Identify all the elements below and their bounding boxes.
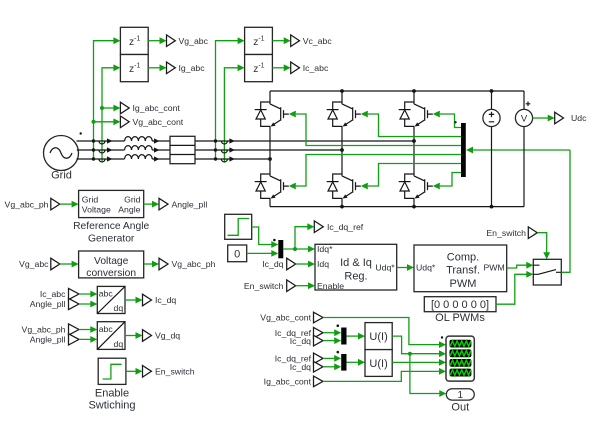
node voltage taps Vg <box>92 139 95 160</box>
block abc-dq 2 <box>97 322 125 350</box>
svg-text:PWM: PWM <box>450 278 477 290</box>
IGBT Q3 upper leg2 <box>327 102 361 127</box>
wire mux to Idq* with branch <box>283 223 315 252</box>
wire En_switch to switch ctrl <box>537 233 550 260</box>
svg-text:Ic_abc: Ic_abc <box>303 63 329 73</box>
node bottom bus leg3 <box>412 205 416 209</box>
svg-text:Voltage: Voltage <box>82 205 111 215</box>
inductor Lb <box>125 146 153 150</box>
voltmeter Udc <box>515 91 532 207</box>
resistor block three-phase <box>170 136 195 163</box>
block abc-dq 1 <box>97 286 125 313</box>
svg-text:Ig_abc_cont: Ig_abc_cont <box>133 103 181 113</box>
svg-text:Udc: Udc <box>571 113 587 123</box>
inductor Lc <box>125 155 153 159</box>
IGBT Q4 lower leg2 <box>327 174 361 199</box>
svg-text:Vg_dq: Vg_dq <box>155 331 180 341</box>
current hoops Ig with arrows <box>99 138 113 162</box>
svg-text:abc: abc <box>99 288 114 298</box>
svg-text:Angle: Angle <box>118 205 140 215</box>
svg-text:Vc_abc: Vc_abc <box>303 36 333 46</box>
wire b1 to UI1 <box>347 333 366 340</box>
goto tag Angle_pll <box>159 198 207 210</box>
from tag En_switch top <box>486 227 537 239</box>
svg-text:1: 1 <box>458 390 464 401</box>
svg-text:Ic_dq: Ic_dq <box>290 362 311 372</box>
from tag Ic_dq b2 <box>290 362 341 373</box>
svg-text:PWM: PWM <box>483 263 504 273</box>
mux bar Idq <box>278 240 283 258</box>
wire Udq* to CTP <box>397 264 414 271</box>
AC source Grid <box>44 132 82 181</box>
svg-text:Reference Angle: Reference Angle <box>73 221 149 232</box>
wire UI2 to scope in3 <box>392 359 446 366</box>
wire Ic vertical tap into z4 <box>224 64 244 161</box>
wire z1 to Vg_abc tag <box>148 37 166 44</box>
mux bar b2 <box>337 351 347 371</box>
wire Ig vertical tap into z2 <box>102 64 120 161</box>
svg-text:Udq*: Udq* <box>416 263 436 273</box>
from tag Ic_dq_ref b1 <box>275 327 341 338</box>
svg-text:Grid: Grid <box>82 194 99 204</box>
svg-text:Udq*: Udq* <box>375 263 395 273</box>
wire PWM to switch in1 <box>507 262 534 269</box>
svg-text:Ig_abc: Ig_abc <box>179 63 206 73</box>
wire z4 to Ic_abc tag <box>272 64 290 71</box>
wire switch output to demux <box>561 150 570 272</box>
wire gate upper leg3 <box>433 111 461 128</box>
goto tag Vc_abc <box>291 35 333 47</box>
wire gate upper leg2 <box>361 111 461 137</box>
svg-text:Vg_abc_ph: Vg_abc_ph <box>172 259 216 269</box>
svg-text:Grid: Grid <box>124 194 141 204</box>
svg-text:0: 0 <box>234 248 240 260</box>
wire PWM into demux <box>466 147 570 154</box>
from tag Angle_pll 2 <box>30 334 79 345</box>
wire Vc vertical tap into z3 <box>216 37 245 159</box>
svg-text:En_switch: En_switch <box>244 281 284 291</box>
node phase A to leg3 <box>412 139 416 143</box>
from tag Ic_dq mid <box>262 258 315 270</box>
svg-text:Ic_dq: Ic_dq <box>262 259 283 269</box>
current hoops Ic with arrows <box>221 138 235 162</box>
unit delay z2 Ig <box>120 55 148 82</box>
from tag Vg_abc <box>19 258 60 270</box>
svg-text:Angle_pll: Angle_pll <box>172 199 208 209</box>
wire OL PWMs to switch in2 <box>496 271 533 304</box>
wire gate upper leg1 <box>289 111 461 146</box>
wire leg1 vertical <box>269 91 271 207</box>
svg-text:Vg_abc_cont: Vg_abc_cont <box>260 313 311 323</box>
node bottom bus DC source <box>490 205 494 209</box>
from tag Ic_dq_ref b2 <box>275 353 341 364</box>
wire leg2 vertical <box>341 91 343 207</box>
svg-text:Enable: Enable <box>95 388 129 400</box>
goto tag Vg_dq <box>143 330 181 342</box>
wire UI1 to scope in2 and Out <box>392 336 446 397</box>
wire DC bus bottom <box>270 206 524 208</box>
node phase B to leg2 <box>340 148 344 152</box>
block Reference Angle Generator <box>73 190 149 244</box>
block Id and Iq Reg <box>315 244 397 291</box>
svg-text:Ic_dq: Ic_dq <box>290 336 311 346</box>
svg-text:Out: Out <box>451 402 469 414</box>
wire abcdq1 to Ic_dq <box>125 297 143 304</box>
wire to Vg_abc_ph tag <box>144 261 159 268</box>
block constant OL PWMs <box>424 297 496 325</box>
wire abcdq2 to Vg_dq <box>125 332 143 339</box>
svg-text:OL PWMs: OL PWMs <box>435 312 485 324</box>
svg-text:Vg_abc_ph: Vg_abc_ph <box>5 199 49 209</box>
from tag Ic_dq b1 <box>290 335 341 346</box>
svg-text:Reg.: Reg. <box>344 271 367 283</box>
svg-text:Vg_abc_cont: Vg_abc_cont <box>133 117 184 127</box>
node bottom bus leg2 <box>340 205 344 209</box>
wire branch to Vg_abc_cont <box>92 118 121 125</box>
IGBT Q1 upper leg1 <box>255 102 289 127</box>
svg-text:Idq: Idq <box>317 259 329 269</box>
wire into RAG <box>60 201 79 208</box>
goto tag Vg_abc <box>167 35 209 47</box>
svg-text:Voltage: Voltage <box>94 256 129 267</box>
svg-text:Enable: Enable <box>317 281 344 291</box>
svg-text:Swtiching: Swtiching <box>88 400 135 412</box>
IGBT Q6 lower leg3 <box>399 174 433 199</box>
node top bus leg3 <box>412 89 416 93</box>
svg-text:Grid: Grid <box>51 170 72 182</box>
wires into abcdq1 <box>79 291 97 308</box>
goto tag Vg_abc_ph out <box>159 258 216 270</box>
from tag Vg_abc_cont bottom <box>260 312 323 323</box>
svg-text:dq: dq <box>114 303 124 313</box>
from tag En_switch mid <box>244 280 315 292</box>
svg-text:Transf.: Transf. <box>446 265 480 277</box>
svg-text:Angle_pll: Angle_pll <box>30 299 66 309</box>
from tag Angle_pll 1 <box>30 298 79 309</box>
block selector U(I) 2 <box>365 350 392 377</box>
wire phase line B <box>77 149 342 151</box>
from tag Vg_abc_ph 2 <box>22 324 79 335</box>
svg-text:Vg_abc: Vg_abc <box>19 259 49 269</box>
goto tag Ig_abc_cont <box>120 102 180 114</box>
scope block <box>441 336 475 381</box>
wire gate lower leg3 <box>433 173 461 190</box>
goto tag En_switch out <box>143 366 195 378</box>
goto tag Udc <box>555 112 587 124</box>
block constant 0 <box>228 245 247 262</box>
block Comp Transf PWM <box>414 245 507 292</box>
wire voltmeter to Udc tag <box>533 115 555 122</box>
mux bar b1 <box>337 324 347 344</box>
svg-text:V: V <box>521 114 528 125</box>
wire 0 to mux <box>247 250 279 257</box>
unit delay z1 Vg <box>120 27 148 54</box>
wire RAG to Angle_pll <box>144 201 159 208</box>
wire gate lower leg2 <box>361 164 461 190</box>
demux bar gates <box>454 121 466 177</box>
wires into abcdq2 <box>79 326 97 343</box>
svg-text:Idq*: Idq* <box>317 244 333 254</box>
block step reference <box>225 214 252 239</box>
goto tag Ic_dq_ref <box>314 221 364 233</box>
wire step to mux <box>252 227 279 248</box>
wire z2 to Ig_abc tag <box>148 64 166 71</box>
unit delay z3 Vc <box>245 27 273 54</box>
svg-text:dq: dq <box>114 339 124 349</box>
svg-text:[0 0 0 0 0 0]: [0 0 0 0 0 0] <box>431 299 489 311</box>
wire Vg_abc_cont to scope in1 <box>323 318 446 349</box>
wire phase line A <box>77 140 415 142</box>
block selector U(I) 1 <box>365 323 392 350</box>
wire step to En_switch <box>126 368 143 375</box>
goto tag Ig_abc <box>167 62 206 74</box>
svg-text:Id & Iq: Id & Iq <box>340 257 372 269</box>
wire z3 to Vc_abc tag <box>272 37 290 44</box>
from tag Ig_abc_cont bottom <box>264 376 323 387</box>
svg-text:En_switch: En_switch <box>155 367 195 377</box>
goto tag Vg_abc_cont <box>120 116 183 128</box>
goto tag Ic_dq <box>143 294 177 306</box>
from tag Ic_abc <box>40 288 79 299</box>
node top bus DC source <box>490 89 494 93</box>
wire Ig_abc_cont to scope in4 <box>323 368 446 381</box>
svg-text:U(I): U(I) <box>369 358 387 370</box>
svg-text:Ic_abc: Ic_abc <box>40 289 66 299</box>
svg-text:Ig_abc_cont: Ig_abc_cont <box>264 377 312 387</box>
arrows after inductors <box>154 138 160 161</box>
block Enable step <box>88 358 135 412</box>
inductor La <box>125 137 153 141</box>
svg-text:Comp.: Comp. <box>447 252 479 264</box>
svg-text:En_switch: En_switch <box>486 228 526 238</box>
goto tag Ic_abc <box>291 62 329 74</box>
IGBT Q5 upper leg3 <box>399 102 433 127</box>
wire phase line C <box>77 158 271 160</box>
wire Vg vertical tap into z1 <box>94 37 121 159</box>
unit delay z4 Ic <box>245 55 273 82</box>
wire DC bus top <box>270 90 524 92</box>
outport Out <box>446 389 474 414</box>
block Voltage conversion <box>79 251 144 279</box>
node phase C to leg1 <box>268 157 272 161</box>
block switch <box>533 259 561 285</box>
wire branch to Ig_abc_cont <box>100 105 120 112</box>
svg-text:conversion: conversion <box>86 268 136 279</box>
wire gate lower leg1 <box>289 155 461 190</box>
node voltage taps Vc <box>214 139 217 160</box>
wire b2 to UI2 <box>347 359 366 366</box>
svg-text:Ic_dq: Ic_dq <box>155 295 176 305</box>
DC source <box>483 91 500 207</box>
svg-text:abc: abc <box>99 324 114 334</box>
svg-text:U(I): U(I) <box>369 331 387 343</box>
from tag Vg_abc_ph <box>5 198 60 210</box>
svg-text:Angle_pll: Angle_pll <box>30 335 66 345</box>
wire leg3 vertical <box>413 91 415 207</box>
svg-text:Vg_abc_ph: Vg_abc_ph <box>22 325 66 335</box>
IGBT Q2 lower leg1 <box>255 174 289 199</box>
svg-text:Generator: Generator <box>88 233 135 244</box>
svg-text:Vg_abc: Vg_abc <box>179 36 209 46</box>
wire into Voltage conversion <box>60 261 79 268</box>
svg-text:Ic_dq_ref: Ic_dq_ref <box>327 222 364 232</box>
node top bus leg2 <box>340 89 344 93</box>
